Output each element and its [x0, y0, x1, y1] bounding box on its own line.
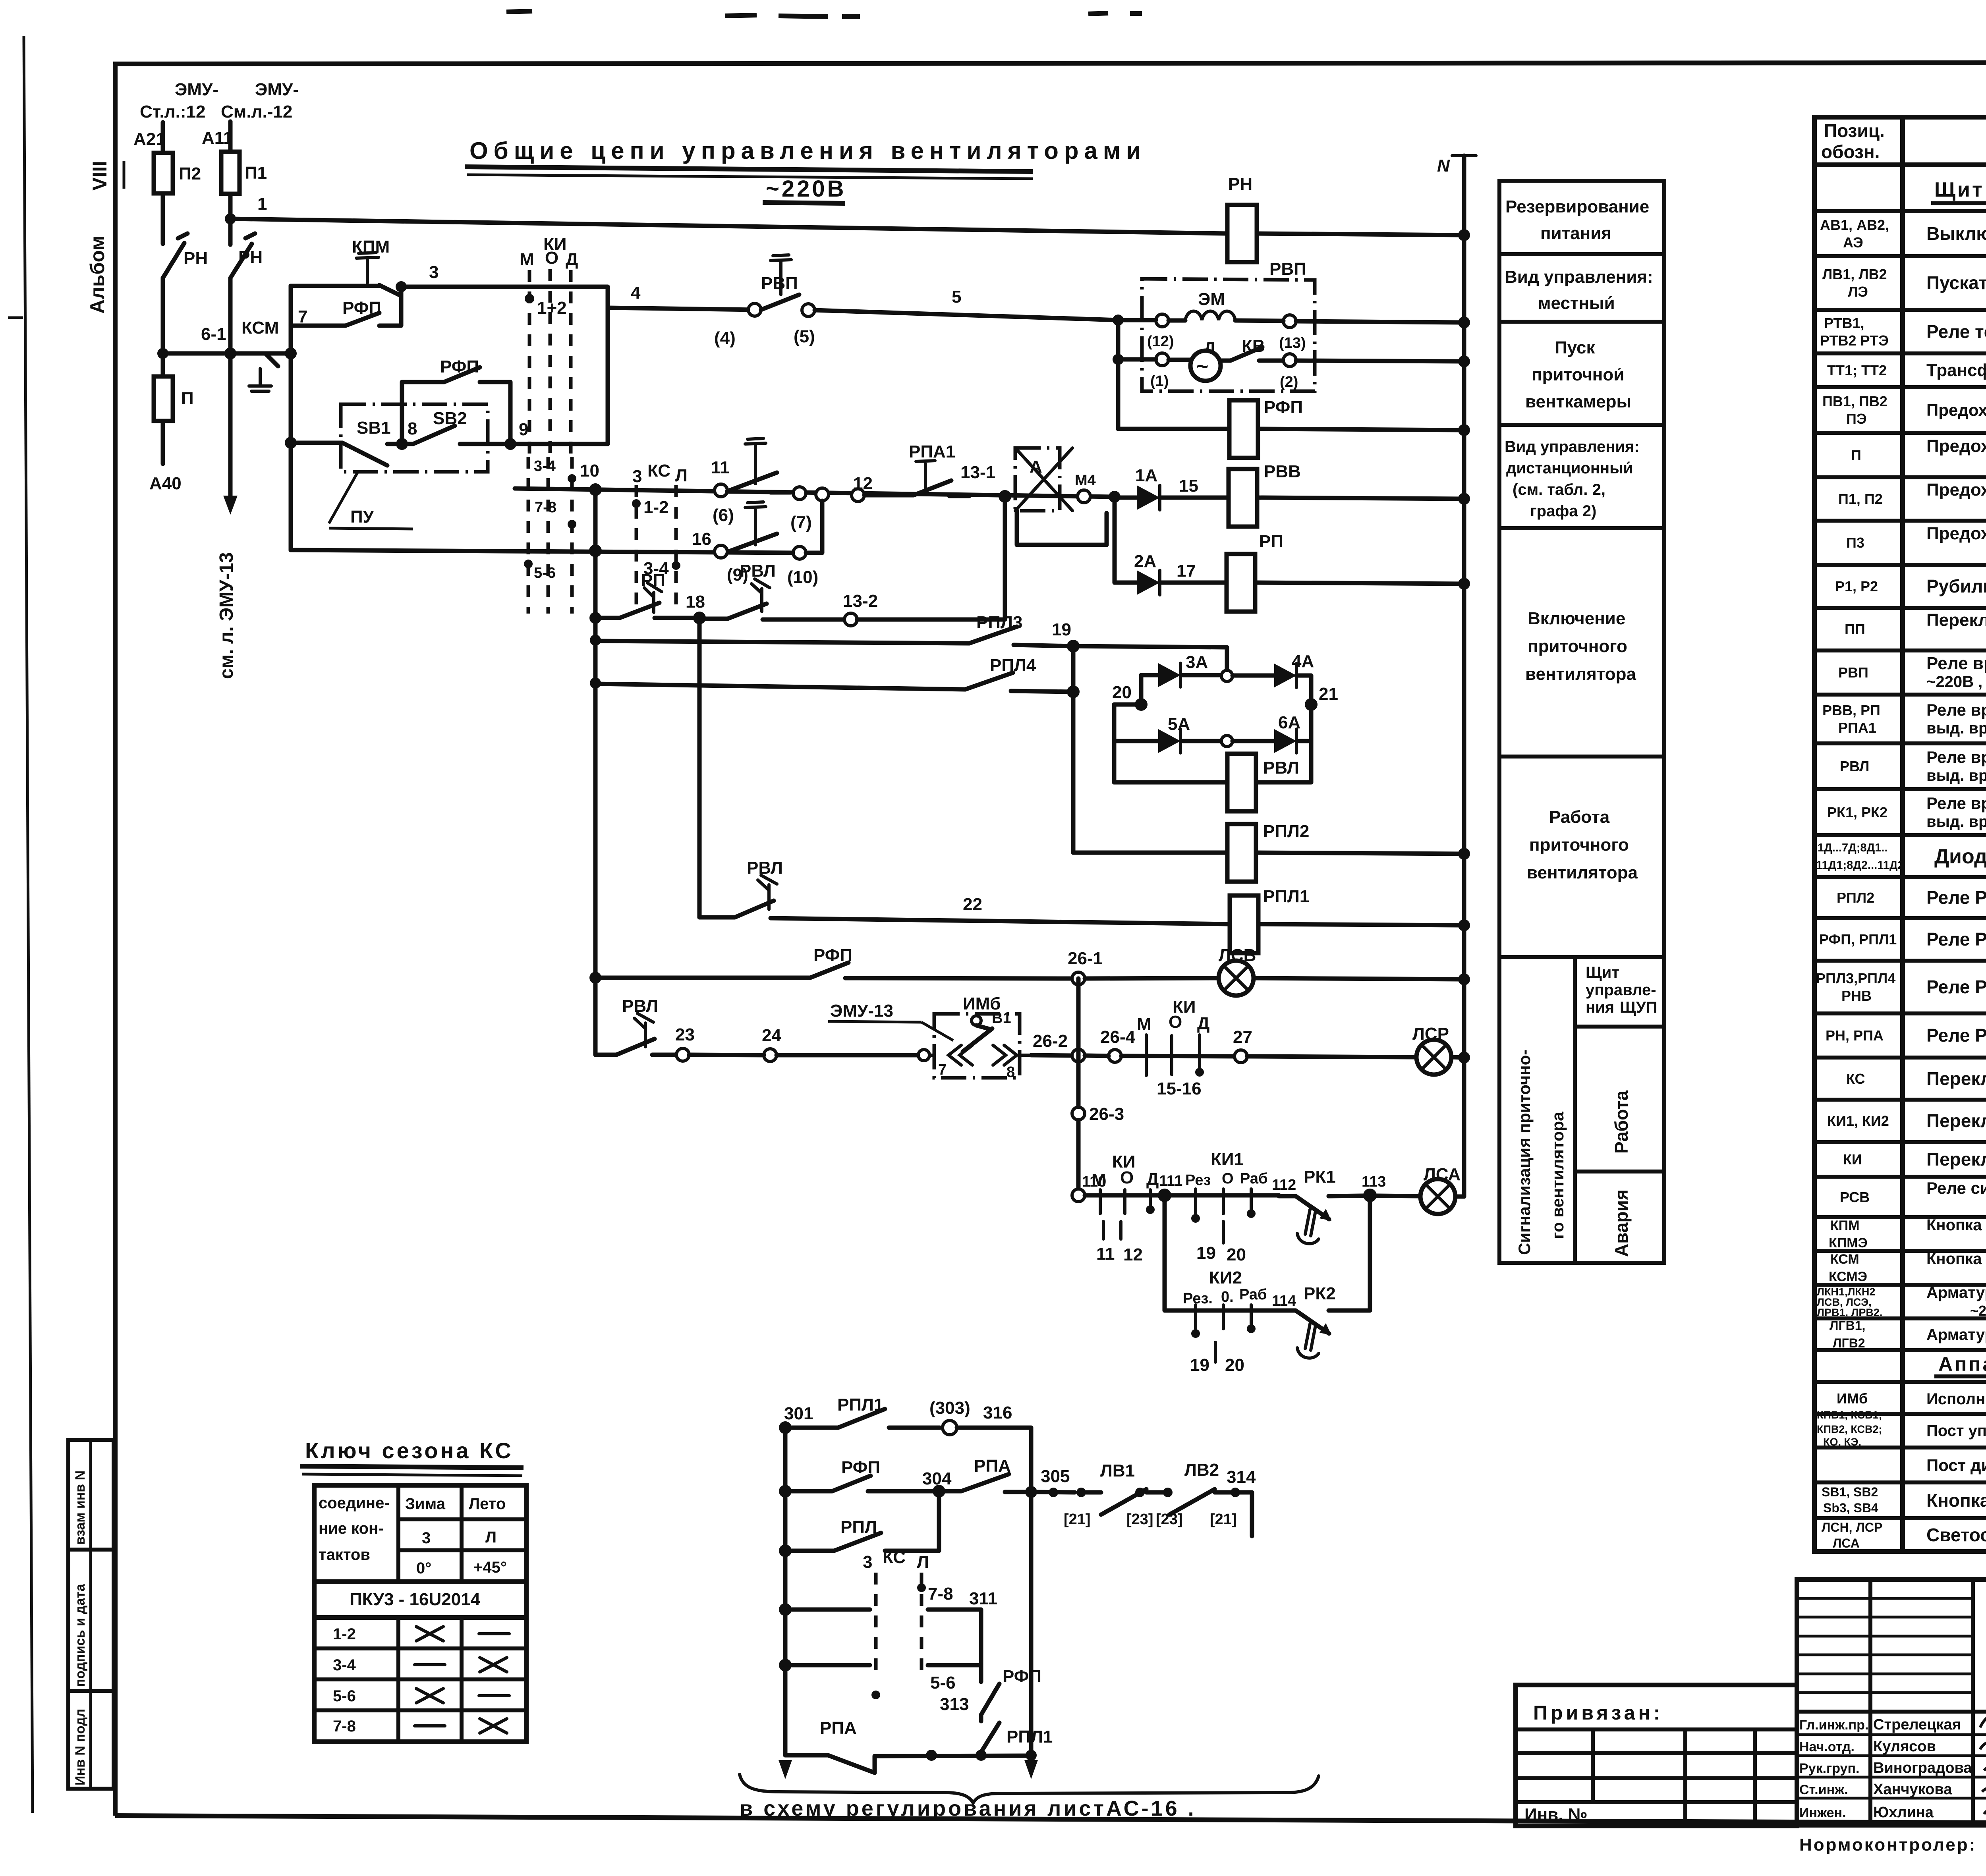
svg-text:РВЛ: РВЛ [747, 858, 783, 878]
terminal (12) [1156, 314, 1169, 327]
svg-text:Ст.л.:12: Ст.л.:12 [140, 102, 205, 122]
svg-text:Трансформатор тока 200/5* ТК: Трансформатор тока 200/5* ТК20 [1926, 361, 1986, 380]
svg-text:См.л.-12: См.л.-12 [221, 102, 292, 122]
svg-text:~220В: ~220В [1970, 1303, 1986, 1319]
svg-text:17: 17 [1177, 561, 1196, 581]
svg-text:Реле РПУ1-362, ~220В; 6з,: Реле РПУ1-362, ~220В; 6з, 2р [1926, 887, 1986, 908]
circle (7) [793, 487, 806, 500]
svg-text:М4: М4 [1075, 472, 1096, 489]
wire feed A11 [228, 122, 233, 152]
svg-text:местныи́: местныи́ [1538, 293, 1615, 313]
svg-text:РПЛ3,РПЛ4: РПЛ3,РПЛ4 [1816, 970, 1895, 986]
notes column frame [1499, 181, 1664, 1263]
svg-text:301: 301 [784, 1404, 813, 1423]
svg-text:SВ1, SВ2: SВ1, SВ2 [1822, 1485, 1878, 1499]
svg-text:Работа: Работа [1549, 807, 1610, 827]
svg-text:АВ1, АВ2,: АВ1, АВ2, [1820, 217, 1889, 233]
svg-text:ЛВ2: ЛВ2 [1184, 1460, 1219, 1480]
svg-text:Альбом: Альбом [86, 236, 108, 314]
svg-text:Д: Д [1197, 1014, 1209, 1033]
svg-text:Пускатель магнитныи́: Пускатель магнитныи́ [1926, 272, 1986, 293]
wire feed A21 [161, 122, 165, 153]
contact РН right [230, 234, 255, 278]
svg-text:(13): (13) [1279, 335, 1306, 351]
svg-text:П3: П3 [1846, 535, 1864, 551]
svg-text:ЛВ1: ЛВ1 [1100, 1461, 1135, 1480]
svg-text:вентилятора: вентилятора [1527, 863, 1638, 882]
svg-text:Инв. №: Инв. № [1524, 1805, 1588, 1824]
svg-text:Реле РПУ1-365, ~220В; 2з, 2: Реле РПУ1-365, ~220В; 2з, 2р [1926, 1025, 1986, 1046]
wire 4 from KU [608, 308, 755, 310]
svg-text:выд. вр. 5÷10 сек.: выд. вр. 5÷10 сек. [1926, 813, 1986, 830]
svg-text:Вид управления:: Вид управления: [1505, 438, 1640, 455]
svg-text:Реле РПУ1-363 , ~220В; 4з,: Реле РПУ1-363 , ~220В; 4з, 4р. [1926, 977, 1986, 997]
svg-text:3: 3 [863, 1552, 872, 1572]
svg-text:304: 304 [922, 1469, 952, 1488]
svg-text:Предохранитель ППТ-10, ~250В: Предохранитель ППТ-10, ~250В [1926, 524, 1986, 543]
svg-text:П: П [181, 389, 194, 408]
svg-text:0°: 0° [416, 1559, 431, 1577]
svg-text:Рез: Рез [1185, 1172, 1211, 1189]
svg-text:16: 16 [692, 529, 711, 549]
node 314 [1231, 1488, 1240, 1497]
box work fan [1499, 955, 1664, 959]
dashdot box ПУ [341, 404, 488, 472]
row 26-1 [589, 972, 601, 984]
wire КПМ row [291, 284, 379, 288]
svg-text:РПА1: РПА1 [909, 442, 955, 461]
svg-text:КИ1, КИ2: КИ1, КИ2 [1827, 1113, 1889, 1129]
wire below П2 [161, 193, 165, 244]
svg-text:305: 305 [1041, 1467, 1070, 1486]
svg-text:Л: Л [917, 1552, 929, 1572]
KU box solid edges [510, 287, 608, 444]
svg-text:Авария: Авария [1611, 1189, 1632, 1257]
svg-text:управле-: управле- [1586, 981, 1656, 999]
wire 21 down to РВЛ right [1256, 741, 1311, 782]
svg-text:Р1, Р2: Р1, Р2 [1835, 578, 1878, 594]
row 305 lamps [1025, 1486, 1037, 1498]
svg-text:ЛГВ1,: ЛГВ1, [1830, 1318, 1865, 1333]
svg-text:в схему регулирования лис: в схему регулирования листАС-16 . [740, 1797, 1196, 1820]
svg-text:РВВ: РВВ [1264, 462, 1301, 481]
left bus [783, 1428, 788, 1755]
vertical 26 column [1076, 979, 1081, 1195]
svg-text:26-1: 26-1 [1068, 949, 1103, 968]
svg-text:Привязан:: Привязан: [1533, 1702, 1663, 1724]
svg-text:выд. вр. 5÷10 сек.: выд. вр. 5÷10 сек. [1926, 767, 1986, 784]
svg-text:Ст.инж.: Ст.инж. [1799, 1782, 1848, 1797]
svg-text:ПУ: ПУ [350, 507, 374, 527]
svg-text:А: А [1030, 457, 1042, 477]
fuse П2 [154, 153, 173, 193]
svg-text:15: 15 [1179, 476, 1198, 496]
svg-text:Д: Д [566, 250, 578, 269]
svg-text:Резервирование: Резервирование [1505, 197, 1649, 216]
svg-text:КПВ2, КСВ2;: КПВ2, КСВ2; [1817, 1423, 1882, 1435]
svg-text:П2: П2 [179, 164, 201, 183]
row РПЛ3 19 [590, 635, 601, 646]
svg-text:РН: РН [238, 247, 263, 267]
node ladder top [285, 347, 297, 359]
svg-text:+45°: +45° [473, 1559, 507, 1576]
svg-text:1-2: 1-2 [333, 1625, 356, 1643]
main title block [1797, 1579, 1986, 1825]
svg-text:РН: РН [184, 249, 208, 268]
svg-text:27: 27 [1233, 1027, 1252, 1047]
wire ladder vertical x732 [289, 286, 293, 550]
svg-text:ЛЭ: ЛЭ [1848, 284, 1868, 300]
svg-text:Кнопка управления КМЕ - 411: Кнопка управления КМЕ - 4110, [1926, 1216, 1986, 1234]
wire 1 [230, 219, 1227, 234]
svg-text:Юхлина: Юхлина [1873, 1804, 1934, 1821]
svg-text:РВП: РВП [1838, 664, 1868, 681]
svg-text:М: М [1137, 1015, 1151, 1034]
svg-text:О: О [545, 248, 558, 268]
svg-text:111: 111 [1159, 1173, 1182, 1189]
N bus [1462, 156, 1466, 1197]
svg-text:SВ1: SВ1 [357, 418, 391, 438]
svg-text:КПМ: КПМ [1830, 1218, 1860, 1233]
svg-text:22: 22 [963, 895, 982, 914]
svg-text:ПКУ3 - 16U2014: ПКУ3 - 16U2014 [350, 1590, 481, 1609]
svg-text:ние кон-: ние кон- [319, 1520, 384, 1537]
svg-text:3-4: 3-4 [534, 458, 556, 475]
box switch-on fan [1499, 755, 1664, 759]
svg-text:3А: 3А [1186, 652, 1208, 672]
svg-text:ТТ1; ТТ2: ТТ1; ТТ2 [1827, 362, 1887, 378]
svg-text:РК2: РК2 [1304, 1284, 1336, 1303]
svg-text:Переключатель ПКУ3-12с 500В: Переключатель ПКУ3-12с 500В [1926, 1110, 1986, 1131]
svg-text:ния: ния [1586, 999, 1614, 1016]
circle М4 [1078, 490, 1090, 503]
svg-text:Раб: Раб [1239, 1286, 1267, 1303]
svg-text:Исполнительныи́ механизм МЭО-: Исполнительныи́ механизм МЭО-1,6/25-0,25… [1926, 1390, 1986, 1408]
wire 5 [815, 310, 1118, 320]
svg-text:КС: КС [883, 1548, 906, 1567]
svg-text:АЭ: АЭ [1843, 234, 1863, 251]
svg-text:РФП, РПЛ1: РФП, РПЛ1 [1819, 931, 1897, 948]
svg-text:9: 9 [519, 420, 528, 439]
svg-text:2А: 2А [1134, 552, 1156, 571]
box start [1499, 423, 1664, 427]
svg-text:7: 7 [938, 1062, 947, 1078]
node SB row [285, 437, 297, 449]
svg-text:Диод Д226Б, 400В; 0,3А: Диод Д226Б, 400В; 0,3А [1934, 845, 1986, 868]
svg-text:19: 19 [1052, 620, 1071, 639]
svg-text:Кулясов: Кулясов [1873, 1738, 1936, 1755]
svg-text:Раб: Раб [1240, 1170, 1267, 1187]
svg-text:РК1, РК2: РК1, РК2 [1827, 804, 1887, 820]
circle 26-4 [1109, 1050, 1121, 1062]
svg-text:Щит: Щит [1586, 964, 1619, 981]
svg-text:РВЛ: РВЛ [1840, 758, 1869, 774]
svg-text:вентилятора: вентилятора [1525, 664, 1636, 684]
svg-text:питания: питания [1540, 224, 1611, 243]
bypass under box A [1017, 511, 1107, 545]
privyazan box [1516, 1685, 1797, 1826]
svg-text:М: М [1092, 1170, 1106, 1190]
wire 26-2 to node [1031, 1055, 1072, 1056]
svg-text:ЛСН, ЛСР: ЛСН, ЛСР [1822, 1520, 1882, 1534]
cell Работа [1575, 1170, 1664, 1173]
svg-text:13-1: 13-1 [960, 463, 995, 482]
svg-text:Выключатель автоматическии́: Выключатель автоматическии́ [1926, 223, 1986, 244]
node 111 [1158, 1189, 1171, 1202]
row РП/13-2 [589, 612, 601, 624]
svg-text:Лето: Лето [469, 1495, 506, 1513]
svg-text:РФП: РФП [841, 1458, 880, 1477]
svg-text:П: П [1851, 447, 1861, 463]
svg-text:РК1: РК1 [1304, 1167, 1336, 1187]
svg-text:Предохранитель ПРС-63-П, ~380: Предохранитель ПРС-63-П, ~380В [1926, 480, 1986, 500]
svg-text:(6): (6) [713, 506, 734, 525]
svg-text:Арматура сигнальная АЕ323: Арматура сигнальная АЕ323 2212У2 [1926, 1326, 1986, 1343]
box local control [1499, 320, 1664, 324]
svg-text:Инжен.: Инжен. [1799, 1805, 1846, 1820]
svg-text:см. л. ЭМУ-13: см. л. ЭМУ-13 [216, 552, 237, 679]
table header [1814, 162, 1986, 167]
row 110 [1072, 1189, 1085, 1202]
box reserve power [1499, 252, 1664, 256]
svg-text:Л: Л [485, 1529, 496, 1546]
svg-text:РФП: РФП [1264, 398, 1303, 417]
svg-text:311: 311 [969, 1589, 997, 1608]
svg-text:3: 3 [422, 1529, 431, 1547]
svg-text:ЛВ1, ЛВ2: ЛВ1, ЛВ2 [1822, 266, 1887, 282]
node 8 [396, 438, 408, 450]
svg-text:Стрелецкая: Стрелецкая [1873, 1716, 1961, 1733]
svg-text:приточнои́: приточнои́ [1532, 365, 1624, 384]
svg-text:8: 8 [1007, 1064, 1015, 1081]
bus x1499 [593, 489, 598, 978]
wire ЭМ row [1118, 320, 1464, 322]
svg-text:114: 114 [1272, 1293, 1296, 1309]
svg-text:Рез.: Рез. [1183, 1290, 1213, 1307]
svg-text:РСВ: РСВ [1840, 1189, 1870, 1205]
svg-text:Зима: Зима [405, 1495, 446, 1513]
wire node 6-1 [163, 351, 291, 356]
KU dashed poles [528, 270, 531, 457]
svg-text:20: 20 [1227, 1245, 1246, 1264]
svg-text:РП: РП [1259, 532, 1283, 551]
svg-text:В1: В1 [992, 1010, 1011, 1027]
svg-text:1Д...7Д;8Д1..: 1Д...7Д;8Д1.. [1818, 841, 1887, 854]
svg-text:VIII: VIII [89, 161, 111, 191]
svg-text:Реле тепловое: Реле тепловое [1926, 321, 1986, 342]
wire down to ЭМУ-13 arrow [228, 353, 233, 501]
svg-text:Вид управления:: Вид управления: [1505, 267, 1653, 287]
svg-text:(2): (2) [1280, 374, 1298, 390]
svg-text:Арматура сигнальная АЕ325: Арматура сигнальная АЕ325 2212У2 [1926, 1284, 1986, 1301]
svg-text:ЛРВ1, ЛРВ2.: ЛРВ1, ЛРВ2. [1817, 1307, 1882, 1318]
svg-text:1: 1 [257, 194, 267, 214]
diode bridge top corner [1073, 646, 1227, 671]
svg-text:11: 11 [711, 458, 730, 477]
svg-text:Пост управления кнопочныи́ П: Пост управления кнопочныи́ ПКЕ-212-2У3. [1926, 1422, 1986, 1440]
svg-text:О: О [1222, 1170, 1234, 1187]
svg-text:ЭМУ-: ЭМУ- [175, 80, 218, 99]
svg-text:КС: КС [647, 461, 670, 481]
svg-text:7-8: 7-8 [535, 499, 556, 516]
contact РН left [163, 234, 187, 278]
svg-text:Sb3, SВ4: Sb3, SВ4 [1823, 1501, 1878, 1515]
svg-text:Предохранитель ПРС-6-П, ~380В: Предохранитель ПРС-6-П, ~380В, ПВД-6 [1926, 401, 1986, 419]
svg-text:ПЭ: ПЭ [1846, 411, 1867, 427]
svg-text:Ханчукова: Ханчукова [1873, 1781, 1952, 1798]
vertical link rows [1116, 320, 1121, 429]
svg-text:ЛГВ2: ЛГВ2 [1833, 1336, 1865, 1350]
svg-text:РН: РН [1228, 174, 1252, 194]
svg-text:7-8: 7-8 [333, 1718, 356, 1735]
svg-text:А21: А21 [133, 129, 166, 149]
svg-text:взам инв N: взам инв N [73, 1471, 88, 1545]
wire below П1 [228, 194, 233, 245]
svg-text:КО, КЭ.: КО, КЭ. [1823, 1436, 1861, 1448]
svg-text:[21]: [21] [1210, 1511, 1237, 1528]
svg-text:15-16: 15-16 [1157, 1079, 1202, 1098]
top scan dashes [506, 11, 1142, 17]
page left edge line [24, 36, 33, 1813]
svg-text:Реле времени ВС-10-63 (ВС-56: Реле времени ВС-10-63 (ВС-56) [1926, 654, 1986, 673]
svg-text:Предохранитель ПРС-20-П , ~38: Предохранитель ПРС-20-П , ~380В [1926, 436, 1986, 456]
node rowA right [1109, 491, 1121, 503]
svg-text:(5): (5) [794, 327, 815, 346]
arrows down [779, 1760, 792, 1779]
circle 12a [816, 488, 829, 501]
svg-text:20: 20 [1225, 1355, 1244, 1375]
svg-text:Реле сигнальное РУ21/0,015: Реле сигнальное РУ21/0,015 [1926, 1179, 1986, 1197]
svg-text:5-6: 5-6 [534, 565, 556, 581]
svg-text:N: N [1437, 156, 1450, 176]
svg-text:~220В: ~220В [766, 176, 846, 202]
cell ЩУП [1575, 1025, 1664, 1029]
box A crossed [1015, 448, 1060, 511]
wire motor row [1118, 359, 1464, 361]
wire 3 to KU [504, 285, 529, 289]
svg-text:SВ2: SВ2 [433, 409, 467, 428]
svg-text:Нач.отд.: Нач.отд. [1799, 1739, 1855, 1754]
svg-text:3: 3 [632, 467, 642, 486]
svg-text:РПЛ1: РПЛ1 [1007, 1727, 1053, 1747]
svg-text:РФП: РФП [1003, 1667, 1041, 1686]
svg-text:5-6: 5-6 [930, 1673, 956, 1693]
svg-text:5: 5 [952, 287, 961, 307]
svg-text:А40: А40 [149, 474, 182, 493]
svg-text:Переключатель пакетныи́: Переключатель пакетныи́ [1926, 610, 1986, 630]
svg-text:КСМ: КСМ [241, 318, 279, 338]
component table frame [1814, 117, 1986, 1552]
KU lower dashed poles [527, 457, 530, 614]
svg-text:(4): (4) [714, 328, 736, 348]
svg-text:~: ~ [1196, 355, 1208, 378]
svg-text:КИ2: КИ2 [1209, 1268, 1242, 1287]
svg-text:[23]: [23] [1126, 1511, 1153, 1528]
svg-text:8: 8 [408, 419, 417, 438]
row РПЛ4 20 [590, 677, 601, 689]
svg-text:Аппаратура по месту: Аппаратура по месту [1938, 1353, 1986, 1375]
svg-text:РВЛ: РВЛ [1263, 758, 1299, 778]
svg-text:Переключатель ПКУ3-12с 1204: Переключатель ПКУ3-12с 1204 [1926, 1149, 1986, 1170]
node 9 [504, 438, 516, 450]
svg-text:РПЛ: РПЛ [840, 1517, 877, 1537]
svg-text:13-2: 13-2 [843, 591, 878, 611]
РПЛ4 wire into node [1071, 690, 1076, 694]
signal section divider [1573, 957, 1577, 1263]
svg-text:подпись и дата: подпись и дата [73, 1583, 88, 1687]
node line1 tap [225, 213, 236, 224]
svg-text:24: 24 [762, 1026, 781, 1045]
svg-text:графа 2): графа 2) [1530, 502, 1596, 520]
svg-text:314: 314 [1227, 1467, 1256, 1487]
svg-text:7-8: 7-8 [928, 1584, 953, 1604]
svg-text:(303): (303) [929, 1398, 970, 1418]
svg-text:20: 20 [1112, 683, 1132, 702]
wire 22 row [697, 618, 702, 917]
svg-text:КСМЭ: КСМЭ [1829, 1269, 1867, 1284]
elbow node20 to coil РВЛ [1114, 704, 1141, 782]
svg-text:113: 113 [1362, 1173, 1386, 1190]
svg-text:РН, РПА: РН, РПА [1826, 1027, 1884, 1044]
svg-text:РТВ1,: РТВ1, [1824, 315, 1864, 331]
svg-text:26-4: 26-4 [1100, 1027, 1136, 1047]
circle 27 [1234, 1050, 1247, 1063]
svg-text:3: 3 [429, 262, 439, 282]
thin upper rows [1797, 1598, 1973, 1693]
bridge vertical from node19/20' [1073, 646, 1227, 853]
svg-text:Кнопка управления КМЕ-6101,: Кнопка управления КМЕ-6101, [1926, 1250, 1986, 1268]
svg-text:Реле времени РЭВ-884; ~220В;: Реле времени РЭВ-884; ~220В; 3з, 1р; [1926, 748, 1986, 766]
svg-text:приточного: приточного [1528, 637, 1627, 656]
svg-text:обозн.: обозн. [1821, 141, 1880, 162]
svg-text:Нормоконтролер:: Нормоконтролер: [1799, 1835, 1976, 1855]
svg-text:Общие цепи управления венти: Общие цепи управления вентиляторами [469, 137, 1146, 164]
svg-text:Инв N подл: Инв N подл [73, 1709, 88, 1785]
svg-text:11Д1;8Д2...11Д2: 11Д1;8Д2...11Д2 [1816, 859, 1904, 872]
curly brace [740, 1774, 1319, 1803]
svg-text:ЛСА: ЛСА [1833, 1536, 1860, 1550]
svg-text:го вентилятора: го вентилятора [1548, 1112, 1567, 1239]
svg-text:Ключ сезона КС: Ключ сезона КС [305, 1438, 514, 1463]
KU contact 1-2 [525, 294, 534, 303]
svg-text:выд. вр. 0.5÷1.5 сек.: выд. вр. 0.5÷1.5 сек. [1926, 720, 1986, 737]
svg-text:дистанционныи́: дистанционныи́ [1506, 459, 1633, 477]
node 21 [1305, 698, 1318, 711]
svg-text:Позиц.: Позиц. [1824, 120, 1885, 141]
svg-text:РПЛ2: РПЛ2 [1837, 890, 1874, 906]
season table frame [314, 1485, 526, 1742]
svg-text:(10): (10) [787, 567, 818, 587]
svg-text:Щит управления 10 ЩУВ: Щит управления 10 ЩУВ [1934, 178, 1986, 201]
svg-text:ПП: ПП [1845, 621, 1865, 637]
circle (10) and riser [793, 546, 806, 559]
row B wire [291, 550, 793, 553]
svg-text:6-1: 6-1 [201, 324, 226, 344]
svg-text:1А: 1А [1135, 466, 1157, 485]
svg-text:21: 21 [1319, 684, 1338, 704]
svg-text:Пуск: Пуск [1555, 338, 1595, 357]
svg-text:3-4: 3-4 [333, 1656, 356, 1674]
svg-text:РТВ2 РТЭ: РТВ2 РТЭ [1820, 332, 1889, 349]
node 113 [1363, 1189, 1377, 1202]
svg-text:~220В , 6П: ~220В , 6П [1926, 673, 1986, 691]
svg-text:Пост дистанционного управления: Пост дистанционного управления ПУ [1926, 1456, 1986, 1475]
svg-text:КИ1: КИ1 [1211, 1150, 1244, 1169]
svg-text:313: 313 [940, 1695, 969, 1714]
svg-text:КПМЭ: КПМЭ [1829, 1235, 1868, 1251]
svg-text:Виноградова: Виноградова [1873, 1760, 1972, 1776]
svg-text:23: 23 [675, 1025, 695, 1044]
